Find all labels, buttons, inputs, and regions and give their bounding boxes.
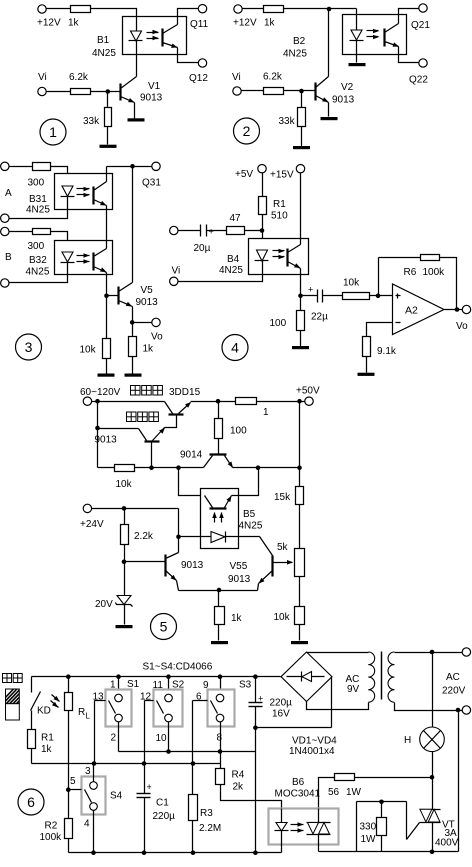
wire lamp top (432, 653, 434, 727)
resistor 15k (296, 487, 304, 505)
S2 pin10 wire (168, 722, 170, 752)
optocoupler B31 4N25 box (55, 174, 113, 210)
node 1k tap (217, 588, 222, 593)
wire 2.2k to base node (124, 545, 126, 562)
B2 light arrows (367, 30, 379, 32)
B31 LED (62, 186, 73, 196)
wire 300 to B31 LED (51, 167, 68, 187)
S3 control stub (193, 700, 208, 702)
resistor R4 2k (216, 769, 225, 785)
RL light arrows (52, 695, 60, 702)
svg-text:+: + (308, 285, 313, 295)
svg-text:10k: 10k (116, 479, 133, 490)
ground (10k c5) (291, 641, 308, 644)
wire 15k to 5k (299, 505, 301, 549)
svg-text:4: 4 (231, 340, 239, 356)
resistor 9.1k (363, 337, 371, 357)
wire 1k to ground (132, 357, 134, 374)
svg-text:6: 6 (27, 794, 35, 810)
wire B1 collector to Q11 (178, 9, 199, 25)
resistor 1k (circuit 5) (215, 607, 225, 625)
wire feedback top (379, 257, 421, 259)
node op-amp output (455, 307, 460, 312)
switch S1 box (106, 690, 132, 727)
node S1 pin1 (116, 674, 121, 679)
power terminal +5V (258, 165, 266, 173)
node RL top (66, 674, 71, 679)
right vertical rail upper (299, 402, 301, 468)
node pin10 junction (166, 749, 171, 754)
op-amp + marker (396, 295, 401, 297)
resistor 1k (circuit 2) (264, 6, 284, 13)
svg-text:220V: 220V (442, 686, 466, 697)
B5 phototransistor (210, 507, 227, 509)
wire Vo node to 1k (132, 323, 134, 337)
svg-text:Q12: Q12 (189, 73, 208, 84)
S4 pin4 wire (93, 811, 95, 853)
wire B31 emitter to B32 collector (106, 206, 108, 249)
svg-text:5: 5 (160, 619, 168, 635)
wire 10k to ground (106, 359, 108, 374)
svg-text:16V: 16V (272, 709, 290, 720)
wire Vi to R 6.2k (47, 91, 71, 93)
circled number 1 (40, 119, 66, 145)
svg-text:33k: 33k (279, 116, 296, 127)
svg-text:B5: B5 (243, 509, 256, 520)
transistor V2 9013 (314, 83, 316, 101)
label 驱动管 (127, 412, 137, 422)
label 调整管 (131, 386, 141, 396)
node +50V (297, 399, 302, 404)
svg-text:R2: R2 (45, 821, 58, 832)
S4 pin3 wire (93, 764, 95, 782)
node rail R3 (191, 850, 196, 855)
B1 phototransistor (161, 29, 163, 47)
node top rail left (95, 399, 100, 404)
svg-text:4N25: 4N25 (26, 205, 50, 216)
resistor 330 1W (377, 818, 387, 836)
V55 base to 5k wiper (273, 562, 293, 564)
terminal Q31 (152, 162, 160, 170)
transistor V5 9013 (117, 287, 119, 305)
svg-text:+12V: +12V (233, 18, 257, 29)
wire 10k to 9014 (135, 467, 204, 469)
triac VT (420, 809, 441, 811)
wire B4 emitter to node (300, 269, 302, 296)
B6 LED (281, 809, 283, 823)
svg-text:47: 47 (230, 213, 242, 224)
svg-text:1k: 1k (264, 18, 276, 29)
3DD15 base lead (165, 415, 177, 428)
svg-text:+50V: +50V (296, 386, 320, 397)
wire 9013 emitter down (177, 581, 179, 591)
ground (33k c2) (293, 146, 310, 149)
resistor 2.2k (121, 525, 129, 545)
wire node to V5 base (107, 295, 119, 297)
svg-text:4N25: 4N25 (239, 521, 263, 532)
resistor 56 1W (335, 774, 355, 781)
B5 LED (201, 536, 211, 538)
node op-amp input (376, 294, 381, 299)
node emitter/100/cap (298, 294, 303, 299)
svg-text:3: 3 (85, 766, 91, 777)
resistor R6 100k (421, 255, 440, 261)
transformer primary lead bottom (395, 703, 463, 711)
svg-text:V5: V5 (141, 285, 154, 296)
svg-text:R1: R1 (273, 199, 286, 210)
svg-text:20µ: 20µ (194, 243, 211, 254)
wire node to cap 22u (301, 295, 318, 297)
wire B1 cathode to V1 collector (136, 41, 138, 77)
node DC+ top (253, 674, 258, 679)
S1 contacts (115, 694, 123, 702)
ground (zener) (116, 625, 133, 628)
op-amp - marker (396, 322, 401, 324)
wire +15V to B4 collector (300, 173, 302, 245)
svg-text:9013: 9013 (332, 95, 355, 106)
svg-text:V55: V55 (230, 561, 248, 572)
wire node to 33k (107, 92, 109, 108)
wire V1 emitter to ground (134, 103, 136, 119)
wire B2 emitter to Q22 (399, 47, 419, 63)
resistor R3 2.2M (189, 795, 198, 821)
power terminal +12V (circuit 2) (234, 5, 242, 13)
wire B32 cathode to B- (9, 263, 68, 283)
wire V55 collector to LED (239, 536, 260, 538)
wire R6 to output (440, 258, 457, 310)
B32 phototransistor (92, 253, 94, 271)
svg-text:9013: 9013 (181, 560, 204, 571)
svg-text:100k: 100k (40, 832, 63, 843)
capacitor 220u 16V (255, 677, 257, 703)
wire 10k to op-amp + (370, 295, 393, 297)
wire 1k top (218, 591, 220, 607)
B4 phototransistor (286, 249, 288, 267)
svg-text:1k: 1k (41, 744, 53, 755)
power terminal +15V (296, 165, 304, 173)
svg-text:AC: AC (446, 672, 460, 683)
svg-text:4: 4 (84, 819, 90, 830)
feedback wire up (378, 258, 380, 296)
gate wire (357, 801, 407, 803)
terminal AC220 top (462, 648, 470, 656)
svg-text:330: 330 (360, 822, 377, 833)
wire pin9 (220, 677, 222, 695)
node driver base (149, 465, 154, 470)
triac gate lead (406, 802, 408, 840)
op-amp A2 (393, 284, 445, 335)
svg-text:300: 300 (28, 241, 45, 252)
S3 pin8 wire (220, 722, 222, 752)
resistor 10k (circuit 3) (103, 339, 111, 359)
wire +12V to R 1k (c2) (243, 8, 264, 10)
resistor R1 1k (circuit 6) (28, 730, 36, 749)
transformer core (381, 652, 383, 700)
wire +5V to R1 (262, 173, 264, 197)
node AC bottom (456, 708, 461, 713)
svg-text:4N25: 4N25 (26, 267, 50, 278)
svg-text:R4: R4 (232, 770, 245, 781)
svg-text:510: 510 (271, 211, 288, 222)
svg-text:Vi: Vi (232, 72, 241, 83)
wire to RL (68, 677, 70, 693)
wire +24V right (92, 508, 179, 510)
wire B32 emitter to node (106, 273, 108, 296)
top bus (circuit 6) (32, 676, 281, 678)
wire pin11 (168, 677, 170, 695)
wire B1 emitter to Q12 (178, 48, 199, 63)
wire A+ to 300 (9, 166, 33, 168)
node right rail mid (297, 465, 302, 470)
photoresistor RL (65, 693, 73, 711)
svg-text:9: 9 (203, 680, 209, 691)
svg-text:B31: B31 (29, 194, 47, 205)
svg-text:KD: KD (37, 706, 51, 717)
svg-text:9.1k: 9.1k (377, 346, 397, 357)
input terminal Vi (circuit 1) (38, 87, 46, 95)
svg-text:Vo: Vo (456, 321, 468, 332)
top rail left (92, 401, 165, 403)
node MT1 rail (430, 850, 435, 855)
svg-text:6.2k: 6.2k (69, 72, 89, 83)
wire node to 100 (300, 296, 302, 311)
svg-text:B6: B6 (292, 777, 305, 788)
B5 emitter route (232, 495, 239, 497)
capacitor C1 220u (144, 764, 146, 794)
B2 phototransistor (383, 29, 385, 47)
transistor 9013 (left pair) (164, 555, 166, 577)
svg-text:1: 1 (263, 407, 269, 418)
resistor R2 100k (65, 819, 73, 839)
switch output wire (pins 2/10/8) (119, 751, 256, 753)
svg-text:S4: S4 (110, 791, 123, 802)
wire 1k to node (c2) (284, 8, 357, 10)
node rail C1 (142, 850, 147, 855)
node lamp branch (430, 650, 435, 655)
control bus wire (32, 763, 221, 765)
svg-text:R: R (78, 707, 85, 718)
S1 pin2 wire (118, 722, 120, 752)
wire 33k to ground (107, 127, 109, 145)
B6 triac (318, 809, 320, 823)
wire AC-bottom vertical (458, 711, 460, 852)
B2 LED (356, 9, 358, 31)
S2 contacts (165, 694, 173, 702)
wire V55 emitter (258, 584, 259, 591)
input terminal Vi (circuit 2) (233, 87, 241, 95)
wire 100 to ground (300, 331, 302, 347)
wire 9014 emitter right (233, 467, 300, 469)
node 56-ohm junction (430, 775, 435, 780)
svg-text:C1: C1 (156, 798, 169, 809)
svg-text:1N4001x4: 1N4001x4 (289, 746, 335, 757)
switch S2 box (154, 690, 183, 727)
ground rail (circuit 6) (69, 852, 282, 854)
wire 6.2k to V1 base (91, 91, 121, 93)
svg-text:Q11: Q11 (190, 19, 209, 30)
circled number 2 (234, 118, 260, 144)
svg-text:VD1~VD4: VD1~VD4 (292, 736, 337, 747)
input terminal A- (1, 214, 9, 222)
terminal Q12 (198, 59, 206, 67)
bridge rectifier VD1~VD4 (281, 652, 332, 702)
svg-text:9013: 9013 (136, 297, 159, 308)
svg-text:B2: B2 (293, 36, 306, 47)
driver base lead (151, 442, 153, 468)
svg-text:S3: S3 (239, 680, 252, 691)
svg-text:+15V: +15V (270, 170, 294, 181)
svg-text:H: H (404, 735, 411, 746)
svg-text:1k: 1k (143, 344, 155, 355)
svg-text:10: 10 (156, 733, 168, 744)
wire RL down (68, 711, 70, 790)
svg-text:8: 8 (217, 733, 223, 744)
transistor V55 9013 (271, 556, 273, 577)
svg-text:1: 1 (49, 124, 57, 140)
B4 LED (257, 250, 268, 261)
svg-text:S2: S2 (172, 680, 185, 691)
wire B31 collector to Q31 rail (106, 167, 108, 182)
svg-text:Q22: Q22 (409, 75, 428, 86)
node control C1 (142, 761, 147, 766)
wire R2 to ground rail (68, 839, 70, 853)
circled number 4 (222, 335, 248, 361)
svg-text:V1: V1 (148, 81, 161, 92)
svg-text:60~120V: 60~120V (80, 387, 121, 398)
wire V5 collector to Q31 (132, 167, 134, 283)
svg-text:100k: 100k (423, 267, 446, 278)
node RL/S4 pin5 (66, 787, 71, 792)
wire node to 10k (106, 296, 108, 339)
svg-text:Vo: Vo (151, 332, 163, 343)
S1 control stub (95, 700, 106, 702)
svg-text:2.2M: 2.2M (199, 823, 221, 834)
svg-text:Q21: Q21 (411, 20, 430, 31)
node B5 emitter tap (256, 465, 261, 470)
resistor 10k (circuit 4) (343, 293, 370, 300)
svg-text:1k: 1k (231, 613, 243, 624)
svg-text:+12V: +12V (37, 18, 61, 29)
input terminal Vi-bottom (circuit 4) (170, 277, 178, 285)
svg-text:+5V: +5V (235, 169, 253, 180)
svg-text:B1: B1 (97, 35, 110, 46)
ground (B2 LED) (349, 63, 366, 66)
wire base node to 9013 (125, 561, 166, 563)
node V2 base (299, 89, 304, 94)
svg-text:+: + (258, 694, 263, 704)
B6 light arrows (291, 824, 304, 826)
S3 contacts (216, 694, 224, 702)
optocoupler B1 4N25 box (123, 17, 187, 55)
svg-text:9014: 9014 (180, 450, 203, 461)
wire left to 10k (98, 467, 115, 469)
wire B+ to 300 (9, 231, 33, 233)
ground (33k) (100, 145, 117, 148)
resistor 10k (lower right) (295, 607, 305, 625)
B32 LED (62, 252, 73, 262)
input terminal B- (1, 279, 9, 287)
svg-text:2k: 2k (233, 782, 245, 793)
node Q31 (130, 164, 135, 169)
node R1/47/LED (260, 228, 265, 233)
wire 330 top (381, 802, 383, 818)
ground (1k c5) (211, 641, 228, 644)
wire output to Vo (445, 309, 463, 311)
svg-text:1W: 1W (346, 787, 362, 798)
resistor 1k (circuit 1) (71, 6, 91, 13)
terminal Q11 (198, 5, 206, 13)
wire KD to R1 (31, 711, 33, 730)
transistor 3DD15 (165, 402, 173, 414)
node control R3 (191, 761, 196, 766)
capacitor 20u (200, 225, 202, 237)
S2 control stub (145, 700, 154, 702)
terminal +24V (83, 504, 91, 512)
wire 100 to 9014 base (218, 439, 220, 455)
wire bus to R3 (192, 764, 194, 795)
transformer primary coil (388, 652, 394, 665)
ground (100 c4) (292, 346, 309, 349)
wire 100 top (218, 402, 220, 419)
svg-text:+24V: +24V (80, 519, 104, 530)
node DC- mid (253, 725, 258, 730)
ground (1k c3) (125, 374, 142, 377)
label 磁铁 (magnet) (3, 674, 12, 683)
top rail right (257, 401, 305, 403)
wire 33k to ground (c2) (301, 127, 303, 147)
svg-text:S1~S4:CD4066: S1~S4:CD4066 (143, 662, 213, 673)
circled number 6 (18, 789, 44, 815)
wire RL node to R2 (68, 790, 70, 819)
svg-text:4N25: 4N25 (92, 48, 116, 59)
wire 330 bottom (381, 836, 383, 852)
wire 2.2k top (124, 509, 126, 525)
wire B4 cathode to Vi- (179, 261, 263, 282)
resistor 300 (A) (33, 163, 51, 171)
svg-text:10k: 10k (274, 612, 291, 623)
input terminal 60~120V (83, 397, 91, 405)
wire to 15k (299, 468, 301, 487)
terminal Q22 (419, 59, 427, 67)
B5 collector route (179, 468, 201, 496)
svg-text:MOC3041: MOC3041 (275, 789, 321, 800)
node V1 base (106, 89, 111, 94)
resistor 6.2k (circuit 1) (71, 89, 91, 95)
wire lamp bottom (432, 752, 434, 778)
wire R1 to node (262, 215, 264, 231)
svg-text:R1: R1 (41, 733, 54, 744)
svg-text:10k: 10k (343, 278, 360, 289)
svg-text:Vi: Vi (38, 72, 47, 83)
node S2 pin11 (166, 674, 171, 679)
input terminal A+ (1, 162, 9, 170)
node left rail mid (95, 426, 100, 431)
svg-text:1: 1 (110, 680, 116, 691)
svg-text:B32: B32 (29, 255, 47, 266)
svg-text:6.2k: 6.2k (263, 72, 283, 83)
svg-text:L: L (86, 712, 91, 721)
ground (V1 emitter) (128, 118, 145, 121)
svg-text:V2: V2 (341, 82, 354, 93)
terminal Vo (circuit 4) (462, 305, 470, 313)
svg-text:33k: 33k (83, 116, 100, 127)
svg-text:1W: 1W (361, 834, 377, 845)
svg-text:S1: S1 (127, 679, 140, 690)
svg-text:9013: 9013 (228, 574, 251, 585)
svg-text:+: + (209, 227, 214, 237)
svg-text:4N25: 4N25 (219, 265, 243, 276)
node rail S4 (91, 850, 96, 855)
